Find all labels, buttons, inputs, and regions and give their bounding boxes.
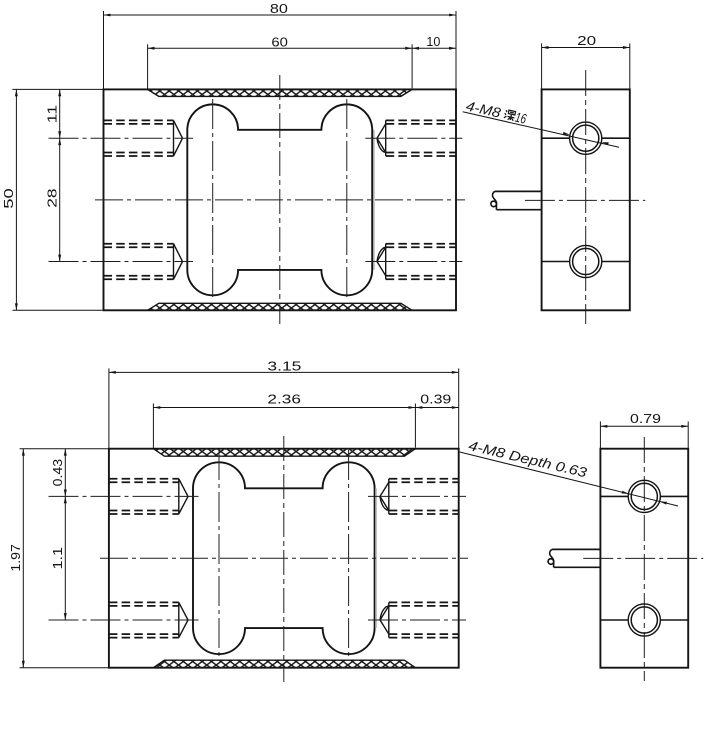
top front view: binocular spring cutout bbox=[187, 104, 372, 295]
top side view: lower hole section line bbox=[542, 261, 630, 263]
dimension 11 (hole offset) bbox=[45, 89, 61, 138]
bottom side view: vertical center line bbox=[643, 437, 645, 681]
bottom side view: upper M8 tapped hole circles bbox=[628, 480, 660, 512]
bottom front view: left lower M8 tapped hole (hidden lines) bbox=[49, 602, 199, 637]
bottom side view: cable outlet bbox=[548, 549, 600, 567]
label 4-M8 Depth 0.63 (inch) leader line bbox=[460, 452, 678, 506]
bottom side view: cable center line bbox=[583, 557, 703, 559]
bottom side view: lower hole section line bbox=[600, 619, 688, 621]
top side view: vertical center line bbox=[585, 70, 587, 324]
top side view: cable outlet bbox=[491, 191, 542, 209]
bottom front view: right lobe center line bbox=[348, 450, 350, 659]
svg-text:50: 50 bbox=[2, 188, 16, 209]
bottom front view: main vertical center line bbox=[283, 436, 285, 682]
svg-text:2.36: 2.36 bbox=[267, 393, 301, 407]
bottom side view: upper hole section line bbox=[600, 495, 688, 497]
top front view: right upper M8 tapped hole (hidden lines) bbox=[365, 120, 462, 156]
top front view: main horizontal center line bbox=[95, 199, 465, 201]
svg-text:20: 20 bbox=[577, 34, 596, 48]
bottom side view: lower M8 tapped hole circles bbox=[628, 604, 660, 636]
svg-text:0.79: 0.79 bbox=[630, 412, 661, 426]
dimension 0.43 (hole offset) bbox=[51, 449, 67, 497]
dimension 10 (pad offset) bbox=[412, 35, 456, 50]
svg-text:11: 11 bbox=[45, 105, 59, 124]
dimension 60 (top pad width) bbox=[148, 35, 413, 88]
svg-text:4-M8: 4-M8 bbox=[465, 98, 503, 120]
dimension 0.39 (pad offset) bbox=[415, 393, 458, 409]
top front view: top knurled pad (hatched) bbox=[148, 89, 413, 96]
svg-text:0.43: 0.43 bbox=[51, 459, 65, 487]
dimension 3.15 (bottom view overall width) bbox=[109, 360, 459, 449]
dimension 2.36 (bottom pad width) bbox=[153, 393, 415, 448]
bottom front view: left lobe center line bbox=[218, 450, 220, 659]
bottom front view: right lower M8 tapped hole (hidden lines) bbox=[368, 602, 466, 637]
top front view: right lobe center line bbox=[346, 99, 348, 301]
top side view: cable center line bbox=[525, 199, 645, 201]
label 4-M8 depth16 (metric) text bbox=[465, 98, 528, 126]
top side view: upper hole section line bbox=[542, 137, 630, 139]
svg-text:3.15: 3.15 bbox=[267, 360, 301, 374]
dimension 50 (top view height) bbox=[2, 89, 103, 310]
top side view: lower M8 tapped hole circles bbox=[570, 245, 602, 277]
dimension 0.79 (side view width) bbox=[600, 412, 688, 449]
dimension 1.1 (hole spacing) bbox=[51, 496, 67, 620]
svg-text:1.1: 1.1 bbox=[51, 547, 65, 570]
dimension 1.97 (bottom view height) bbox=[9, 449, 109, 668]
dimension 28 (hole spacing) bbox=[45, 138, 61, 261]
bottom side view: body outline bbox=[600, 449, 688, 668]
top side view: body outline bbox=[542, 89, 630, 310]
bottom front view: left upper M8 tapped hole (hidden lines) bbox=[49, 479, 199, 514]
svg-text:28: 28 bbox=[45, 188, 59, 207]
bottom front view: binocular spring cutout bbox=[193, 462, 375, 654]
top side view: upper M8 tapped hole circles bbox=[570, 122, 602, 154]
bottom front view: main horizontal center line bbox=[100, 557, 468, 559]
svg-text:4-M8 Depth 0.63: 4-M8 Depth 0.63 bbox=[467, 438, 589, 480]
top front view: grey layer line at right lobe bbox=[373, 130, 375, 270]
dimension 20 (side view width) bbox=[542, 34, 630, 90]
label 4-M8 Depth 0.63 (inch) text bbox=[467, 438, 589, 480]
dimension 80 (top view overall width) bbox=[104, 2, 457, 89]
top front view: left lobe center line bbox=[212, 99, 214, 301]
top front view: main vertical center line bbox=[279, 75, 281, 324]
top front view: right lower M8 tapped hole (hidden lines) bbox=[365, 244, 462, 280]
bottom front view: right upper M8 tapped hole (hidden lines) bbox=[368, 479, 466, 514]
svg-text:1.97: 1.97 bbox=[9, 544, 23, 572]
label 4-M8 depth16 (metric) leader line bbox=[463, 112, 619, 148]
bottom front view: top knurled pad (hatched) bbox=[153, 449, 415, 457]
svg-text:16: 16 bbox=[514, 110, 528, 127]
top front view: left lower M8 tapped hole (hidden lines) bbox=[49, 244, 194, 280]
svg-text:60: 60 bbox=[271, 35, 288, 49]
bottom front view: grey layer line at right lobe bbox=[375, 488, 377, 628]
top front view: body outline bbox=[104, 89, 457, 310]
svg-text:10: 10 bbox=[426, 35, 440, 49]
svg-text:0.39: 0.39 bbox=[420, 393, 451, 407]
top front view: left upper M8 tapped hole (hidden lines) bbox=[49, 120, 194, 156]
svg-text:80: 80 bbox=[270, 2, 288, 16]
top front view: bottom knurled pad (hatched) bbox=[148, 303, 413, 310]
bottom front view: body outline bbox=[109, 449, 459, 668]
bottom front view: bottom knurled pad (hatched) bbox=[153, 660, 415, 668]
